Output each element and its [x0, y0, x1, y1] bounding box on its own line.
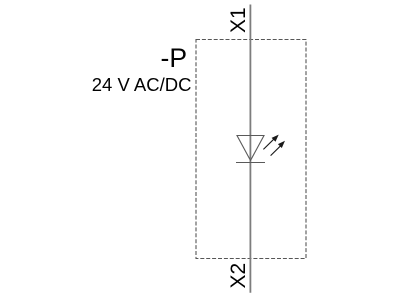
svg-text:X2: X2: [227, 263, 250, 289]
LED P: diode triangle: [237, 136, 264, 161]
svg-text:-P: -P: [161, 43, 188, 73]
LED P: emission arrow 1: [263, 135, 278, 150]
wire (vertical conductor X1 to X2): [249, 5, 251, 293]
svg-text:24 V AC/DC: 24 V AC/DC: [92, 74, 192, 95]
LED P: emission arrow 2: [271, 141, 285, 156]
svg-text:X1: X1: [227, 7, 250, 33]
LED P: cathode bar: [236, 162, 265, 164]
dashed enclosure (lamp module outline): [196, 40, 306, 259]
